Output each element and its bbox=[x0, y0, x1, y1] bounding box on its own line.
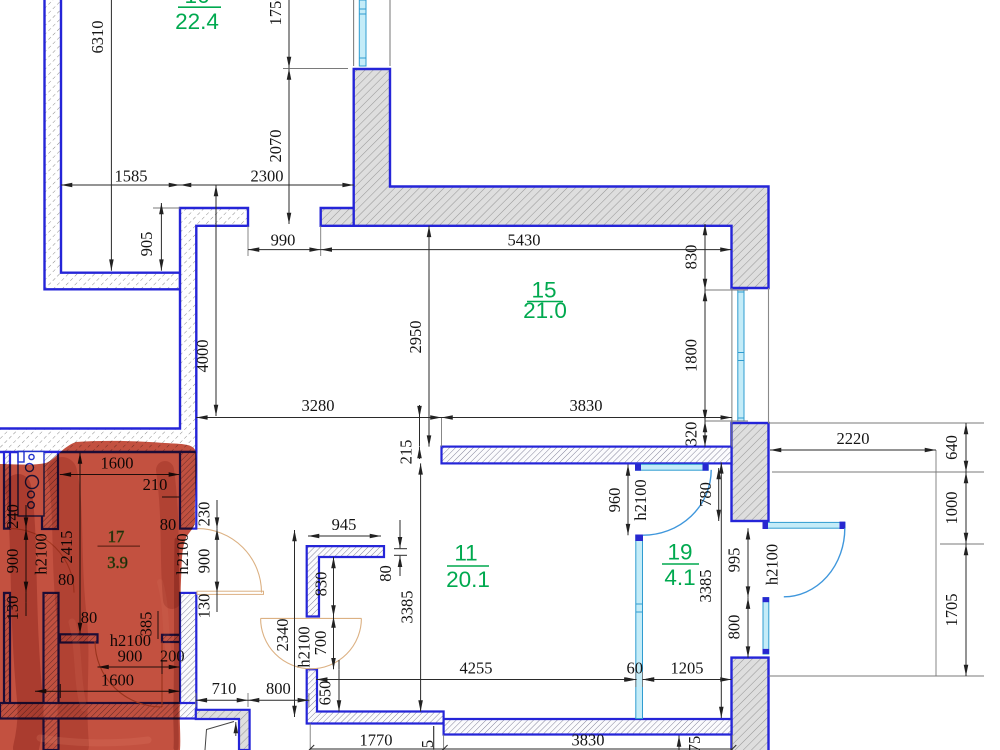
sink inner rect bbox=[18, 452, 24, 463]
dim 385 bbox=[157, 611, 159, 639]
svg-text:17: 17 bbox=[108, 527, 125, 546]
corridor semicircle door tan bbox=[261, 618, 362, 668]
tick step wall top bbox=[153, 207, 180, 209]
dim 4255 bbox=[316, 679, 636, 681]
svg-text:1750: 1750 bbox=[266, 0, 285, 26]
door17 left tan arc bbox=[10, 529, 74, 593]
dim 3280 bbox=[196, 417, 441, 419]
L-wall 945 niche bbox=[307, 546, 384, 616]
FIXTURES bbox=[18, 452, 44, 517]
wall stub left of 990 opening bbox=[321, 208, 354, 226]
ext 60 dim verticals bbox=[635, 672, 637, 687]
svg-text:60: 60 bbox=[627, 659, 644, 678]
dim 1750 bbox=[288, 0, 290, 68]
dim 1600 bottom bbox=[35, 690, 180, 692]
svg-text:2300: 2300 bbox=[251, 167, 284, 186]
dim 3830 top bbox=[442, 417, 732, 419]
dim 210 tick bbox=[162, 496, 180, 498]
svg-text:1205: 1205 bbox=[671, 659, 704, 678]
dim 3385 right bbox=[720, 462, 722, 718]
svg-text:700: 700 bbox=[311, 631, 330, 656]
svg-text:20.1: 20.1 bbox=[446, 567, 490, 592]
wall step + vertical corridor wall + room17 top wall bbox=[0, 208, 248, 452]
svg-text:320: 320 bbox=[682, 422, 701, 447]
svg-text:80: 80 bbox=[376, 565, 395, 582]
svg-text:995: 995 bbox=[725, 548, 744, 573]
room17 left wall upper bbox=[4, 452, 10, 529]
window right1 jambs bbox=[731, 288, 733, 423]
partition glazing between corridor and room19 bbox=[636, 464, 709, 470]
balcony window sash bottom-left bbox=[205, 722, 236, 750]
dim 4000 bbox=[215, 185, 217, 416]
svg-text:75: 75 bbox=[685, 736, 704, 750]
dim 240/900/130 left column bbox=[25, 505, 27, 529]
svg-text:1705: 1705 bbox=[942, 594, 961, 627]
dim 990 bbox=[248, 249, 321, 251]
window top glazing bbox=[359, 0, 366, 66]
svg-text:3830: 3830 bbox=[572, 731, 605, 750]
ext 710/800 bbox=[195, 693, 197, 707]
svg-text:960: 960 bbox=[605, 488, 624, 513]
svg-text:830: 830 bbox=[682, 245, 701, 270]
dim 1600 top bbox=[60, 474, 180, 476]
room17 interior wall lower bbox=[44, 593, 59, 750]
svg-text:22.4: 22.4 bbox=[175, 9, 219, 34]
dim 960 bbox=[627, 465, 629, 536]
EXTENSION LINES bbox=[153, 69, 984, 750]
balcony wall under room17 bbox=[0, 703, 196, 719]
svg-text:780: 780 bbox=[696, 482, 715, 507]
svg-text:h2100: h2100 bbox=[631, 479, 650, 520]
dim 995 bbox=[747, 528, 749, 597]
dim 710 bbox=[196, 699, 248, 701]
room17 left wall lower bbox=[4, 593, 10, 718]
tick at top window bottom bbox=[283, 68, 348, 70]
door arc right wall blue bbox=[784, 528, 845, 597]
room17 interior wall upper stub bbox=[42, 452, 58, 529]
svg-text:2070: 2070 bbox=[266, 130, 285, 163]
dim 830b/700/650 bbox=[333, 557, 335, 617]
ext for 990/5430 bbox=[247, 226, 249, 256]
svg-text:3280: 3280 bbox=[302, 396, 335, 415]
svg-text:1000: 1000 bbox=[942, 492, 961, 525]
WALLS bbox=[0, 0, 769, 750]
svg-text:990: 990 bbox=[271, 231, 296, 250]
ext 3280/3830 bbox=[441, 418, 443, 447]
room17 bottom door stub right bbox=[162, 635, 180, 642]
dim 230/900/130 right column bbox=[216, 500, 218, 529]
dim 1205 bbox=[643, 679, 732, 681]
DIMENSION TEXTS bbox=[58, 167, 870, 750]
dim 3385 left bbox=[420, 463, 422, 711]
svg-text:900: 900 bbox=[195, 549, 214, 574]
ext window right2 bbox=[705, 289, 748, 291]
window right2 horizontal glazing bbox=[763, 522, 845, 528]
ext bottom dims bbox=[309, 724, 311, 750]
dim 215 bbox=[419, 418, 421, 447]
svg-text:3385: 3385 bbox=[696, 570, 715, 603]
pillar right lower bbox=[732, 658, 769, 750]
svg-text:3830: 3830 bbox=[570, 396, 603, 415]
dim 800a bbox=[248, 699, 309, 701]
dim 5430 bbox=[321, 249, 732, 251]
dim 1585 bbox=[61, 184, 180, 186]
dim 1770 / 3830 bottom line bbox=[310, 748, 732, 750]
svg-text:2220: 2220 bbox=[837, 429, 870, 448]
DOOR ARCS bbox=[10, 470, 845, 707]
svg-text:905: 905 bbox=[137, 232, 156, 257]
svg-text:1585: 1585 bbox=[115, 167, 148, 186]
svg-text:640: 640 bbox=[942, 435, 961, 460]
svg-text:2340: 2340 bbox=[273, 619, 292, 652]
dim 2415 bbox=[79, 453, 81, 635]
RED MARKER BLOB bbox=[0, 441, 197, 750]
svg-text:4.1: 4.1 bbox=[664, 565, 695, 590]
svg-text:11: 11 bbox=[454, 541, 477, 566]
svg-text:230: 230 bbox=[195, 502, 214, 527]
dim 830a/1800/320 right column bbox=[704, 224, 706, 290]
svg-text:800: 800 bbox=[725, 615, 744, 640]
WINDOWS bbox=[354, 0, 846, 719]
THIN WALLS bbox=[0, 447, 732, 750]
fixture circles bbox=[29, 454, 34, 459]
dim 2950 bbox=[428, 226, 430, 447]
balcony right outline bbox=[769, 422, 985, 424]
dim 780 bbox=[718, 468, 720, 521]
svg-text:1800: 1800 bbox=[682, 339, 701, 372]
svg-text:800: 800 bbox=[266, 679, 291, 698]
dim 2340 bbox=[294, 530, 296, 717]
svg-text:1770: 1770 bbox=[360, 731, 393, 750]
room17 right wall lower piece bbox=[180, 593, 196, 710]
dim 80 (945 wall) outside arrows bbox=[399, 520, 401, 548]
dim 135 step tick bbox=[433, 726, 435, 749]
L-wall lower corner + room11 bottom wall A bbox=[307, 669, 444, 723]
svg-text:5430: 5430 bbox=[508, 231, 541, 250]
svg-text:6310: 6310 bbox=[88, 21, 107, 54]
room17 label (over red) bbox=[98, 527, 141, 572]
dim 60 outside arrows bbox=[616, 679, 635, 681]
dim 2070 bbox=[288, 69, 290, 225]
dim 800b bbox=[747, 598, 749, 658]
svg-text:h2100: h2100 bbox=[763, 544, 782, 585]
thin wall between room15 and rooms 11/19 bbox=[442, 447, 732, 464]
room17 right wall upper piece bbox=[180, 452, 196, 529]
svg-text:2950: 2950 bbox=[406, 321, 425, 354]
svg-text:130: 130 bbox=[195, 594, 214, 619]
door17 right tan arc + leaf bbox=[198, 529, 262, 593]
dim 945 bbox=[308, 535, 381, 537]
dim 2220 bbox=[770, 449, 936, 451]
svg-text:945: 945 bbox=[332, 515, 357, 534]
svg-text:3385: 3385 bbox=[398, 591, 417, 624]
svg-text:4000: 4000 bbox=[193, 340, 212, 373]
dim 2300 bbox=[180, 184, 354, 186]
pillar right upper bbox=[732, 423, 769, 521]
arrow up at wall B bottom bbox=[678, 736, 680, 750]
svg-text:21.0: 21.0 bbox=[523, 298, 567, 323]
svg-text:19: 19 bbox=[667, 540, 692, 565]
partition glazing between room11 and room19 bbox=[636, 535, 643, 719]
window right3 vertical glazing bbox=[763, 598, 769, 654]
dim 640/1000/1705 far right bbox=[965, 423, 967, 472]
svg-text:710: 710 bbox=[212, 679, 237, 698]
door17 bottom tan arc + leaf bbox=[95, 642, 162, 708]
svg-text:4255: 4255 bbox=[460, 659, 493, 678]
window right1 glazing bbox=[738, 290, 744, 421]
svg-text:830: 830 bbox=[312, 572, 331, 597]
balcony corner lower-left bbox=[196, 710, 250, 750]
room17 bottom door stub left bbox=[60, 634, 98, 642]
ROOM LABELS bbox=[175, 0, 699, 592]
wall room16 left + bottom bbox=[45, 0, 181, 289]
dim 6310 bbox=[110, 0, 112, 271]
door arc room19 blue bbox=[643, 470, 711, 535]
sink unit rectangle bbox=[18, 452, 44, 517]
svg-text:650: 650 bbox=[316, 681, 335, 706]
dim 905 bbox=[160, 203, 162, 271]
svg-text:3.9: 3.9 bbox=[107, 553, 128, 572]
svg-text:215: 215 bbox=[397, 440, 416, 465]
window top gray jambs bbox=[353, 0, 355, 66]
room11/19 bottom wall B bbox=[444, 719, 732, 735]
svg-text:5: 5 bbox=[418, 740, 437, 748]
big middle wall + top horizontal wall + right corner bbox=[354, 69, 769, 288]
dim 900 bottom17 + 200 bbox=[98, 666, 181, 668]
